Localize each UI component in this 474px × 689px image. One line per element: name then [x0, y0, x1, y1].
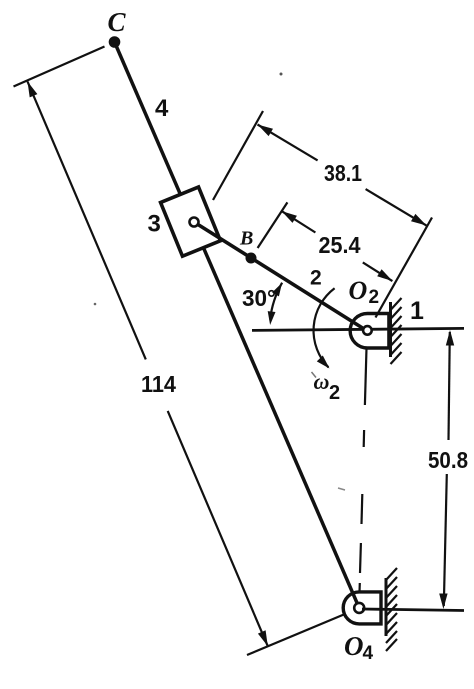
dimension line 50.8: [449, 332, 450, 440]
link 2 (line from slider pin through B to O2): [194, 222, 367, 331]
scan specks: [280, 73, 283, 76]
extension line at slider pin for 38.1 dimension: [213, 111, 263, 200]
dimension line 25.4: [282, 211, 316, 232]
svg-text:114: 114: [141, 371, 176, 397]
dashed centerline O2 to O4: [365, 348, 367, 405]
ground hatching at O4: [386, 568, 397, 580]
svg-text:25.4: 25.4: [319, 232, 361, 258]
dimension line 114: [28, 82, 146, 360]
extension line at O2 for 38.1/25.4 dimensions: [376, 218, 433, 318]
svg-text:1: 1: [410, 297, 424, 325]
pin at O2: [363, 326, 372, 335]
svg-text:2: 2: [369, 287, 380, 308]
horizontal reference line through O2: [252, 328, 464, 330]
pivot O4 (bracket with bearing circle): [343, 592, 381, 624]
link 4 (line C to O4): [115, 42, 360, 608]
extension line at C for 114 dimension: [14, 47, 105, 87]
svg-text:B: B: [239, 228, 253, 250]
svg-text:2: 2: [310, 267, 322, 290]
svg-text:3: 3: [148, 211, 161, 238]
svg-text:C: C: [108, 7, 127, 37]
extension line at O4 for 114 dimension: [247, 614, 345, 655]
ground wall at O4: [385, 578, 388, 636]
omega-2 rotation arrow arc: [314, 288, 335, 367]
svg-text:50.8: 50.8: [428, 447, 468, 473]
dimension line 38.1: [258, 125, 318, 161]
svg-text:O: O: [349, 276, 368, 305]
pin at slider block: [190, 218, 199, 227]
svg-text:ω: ω: [314, 369, 330, 394]
ground wall at O2: [389, 302, 392, 357]
extension line at B for 25.4 dimension: [258, 202, 288, 248]
svg-text:30°: 30°: [242, 285, 276, 311]
svg-text:O: O: [344, 631, 364, 661]
pin at O4: [354, 603, 364, 613]
slider block 3: [161, 187, 221, 256]
30 degree angle arc: [270, 283, 282, 320]
ground hatching at O2: [391, 298, 402, 310]
point C: [109, 36, 121, 48]
horizontal reference line through O4: [362, 609, 464, 611]
svg-text:38.1: 38.1: [324, 160, 362, 186]
svg-text:4: 4: [155, 95, 169, 122]
svg-text:4: 4: [363, 643, 374, 664]
pivot O2 (bracket with bearing circle): [350, 314, 389, 349]
svg-text:2: 2: [329, 382, 340, 404]
point B: [246, 253, 257, 264]
